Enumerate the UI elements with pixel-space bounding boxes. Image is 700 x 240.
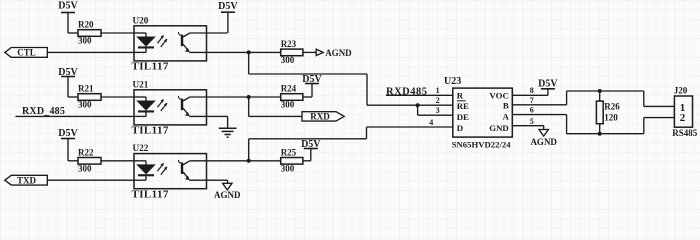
svg-text:R25: R25 xyxy=(281,147,297,157)
IC U23 SN65HVD22/24 body xyxy=(444,76,512,149)
svg-text:TIL117: TIL117 xyxy=(132,189,169,201)
svg-text:J20: J20 xyxy=(674,86,688,96)
svg-text:300: 300 xyxy=(78,36,92,46)
svg-text:2: 2 xyxy=(436,96,440,105)
svg-text:B: B xyxy=(503,100,509,110)
resistor R24 300 xyxy=(281,84,303,110)
phototransistor of U20 xyxy=(179,32,207,52)
svg-text:TIL117: TIL117 xyxy=(132,61,169,73)
power D5V for R21 xyxy=(58,67,78,97)
LED of U20 xyxy=(134,33,154,52)
wire TXD to U22 xyxy=(47,179,134,181)
svg-text:3: 3 xyxy=(436,106,440,115)
U23 pin numbers left xyxy=(429,86,439,127)
svg-text:300: 300 xyxy=(78,164,92,174)
svg-text:300: 300 xyxy=(281,100,295,110)
svg-text:AGND: AGND xyxy=(325,48,352,58)
U23 right pin names xyxy=(489,91,509,134)
svg-text:RXD_485: RXD_485 xyxy=(22,106,65,117)
svg-text:U23: U23 xyxy=(444,76,461,87)
power D5V for R22 xyxy=(58,128,78,161)
svg-text:R26: R26 xyxy=(604,102,620,112)
wire U20 collector to D5V xyxy=(207,32,228,34)
junction node U22 collector xyxy=(247,159,251,163)
junction node U20 emitter xyxy=(247,50,251,54)
svg-text:R20: R20 xyxy=(78,20,94,30)
phototransistor of U21 xyxy=(179,96,207,116)
wire U23 A pin6 to bus bottom rail xyxy=(512,115,674,134)
svg-text:TXD: TXD xyxy=(17,175,37,185)
svg-text:VOC: VOC xyxy=(489,91,508,101)
svg-text:DE: DE xyxy=(457,112,469,122)
svg-text:CTL: CTL xyxy=(17,48,36,58)
wire node to RXD flag xyxy=(249,97,302,116)
LED of U21 xyxy=(134,97,154,116)
U23 left pin names xyxy=(457,91,469,134)
svg-text:D5V: D5V xyxy=(538,79,558,90)
svg-text:SN65HVD22/24: SN65HVD22/24 xyxy=(452,140,512,150)
svg-text:120: 120 xyxy=(604,112,618,122)
resistor R22 300 xyxy=(78,147,101,173)
wire R22 to U22 xyxy=(101,160,134,162)
resistor R25 300 xyxy=(281,147,303,173)
port CTL xyxy=(5,48,48,58)
wire U20 emitter to node xyxy=(207,51,281,53)
wire U22 emitter to AGND xyxy=(207,180,228,183)
svg-text:R22: R22 xyxy=(78,147,94,157)
resistor R26 120 (termination) xyxy=(596,91,620,134)
optocoupler U21 TIL117 body xyxy=(132,79,207,136)
svg-text:1: 1 xyxy=(436,86,440,95)
svg-text:D5V: D5V xyxy=(58,128,78,139)
svg-text:GND: GND xyxy=(489,123,509,133)
svg-text:300: 300 xyxy=(281,55,295,65)
svg-text:7: 7 xyxy=(530,96,534,105)
svg-text:AGND: AGND xyxy=(530,137,557,147)
optocoupler U20 TIL117 body xyxy=(132,15,207,72)
power D5V at U23 VCC xyxy=(538,79,558,96)
wire junction to DE pin 3 xyxy=(418,105,453,115)
phototransistor of U22 xyxy=(179,160,207,180)
net label RXD485 with pin1 wire xyxy=(386,87,453,98)
power D5V above R25 xyxy=(301,139,321,161)
power port AGND at U23 GND xyxy=(530,130,557,147)
wire RXD_485 to U21 xyxy=(15,115,134,117)
svg-text:R: R xyxy=(457,91,464,101)
power D5V for R20 xyxy=(58,1,78,33)
wire R21 to U21 xyxy=(101,96,134,98)
port TXD xyxy=(5,175,48,185)
wire U23 VCC pin8 to D5V xyxy=(512,94,548,96)
wire U23 GND pin5 to AGND xyxy=(512,126,543,130)
wire U20 emitter to U23 RE/DE pins xyxy=(249,52,453,105)
svg-text:AGND: AGND xyxy=(214,190,241,200)
optocoupler U22 TIL117 body xyxy=(132,143,207,200)
junction node R26 top xyxy=(598,89,602,93)
svg-text:300: 300 xyxy=(78,100,92,110)
light arrows of U21 xyxy=(157,99,167,111)
wire U22 collector to R25 xyxy=(207,160,281,162)
wire U23 B pin7 to bus top rail xyxy=(512,91,674,106)
junction node RE/DE tie xyxy=(416,103,420,107)
junction node R26 bottom xyxy=(598,132,602,136)
wire R23 to AGND port xyxy=(303,51,316,53)
svg-text:R21: R21 xyxy=(78,84,94,94)
port RXD xyxy=(302,112,344,122)
svg-text:6: 6 xyxy=(530,106,534,115)
svg-text:D5V: D5V xyxy=(218,1,238,12)
wire R20 to U20 xyxy=(101,32,134,34)
wire CTL to U20 xyxy=(47,51,134,53)
power port AGND (R23) xyxy=(316,48,352,58)
power port AGND below U22 xyxy=(214,183,241,200)
light arrows of U22 xyxy=(157,163,167,175)
svg-text:RE: RE xyxy=(457,101,469,111)
power D5V above U20 collector xyxy=(218,1,238,33)
svg-text:8: 8 xyxy=(530,86,534,95)
svg-text:RXD: RXD xyxy=(310,112,330,122)
svg-text:D5V: D5V xyxy=(58,1,78,12)
svg-text:R23: R23 xyxy=(281,39,297,49)
U23 pin numbers right xyxy=(530,86,534,126)
power D5V above R24 xyxy=(302,74,322,97)
svg-text:4: 4 xyxy=(429,118,433,127)
svg-text:U22: U22 xyxy=(133,143,149,153)
svg-text:300: 300 xyxy=(281,164,295,174)
svg-text:A: A xyxy=(502,112,509,122)
light arrows of U20 xyxy=(157,35,167,47)
resistor R23 300 xyxy=(281,39,303,65)
svg-text:2: 2 xyxy=(680,112,686,124)
LED of U22 xyxy=(134,161,154,180)
wire U21 collector to R24 xyxy=(207,96,281,98)
earth ground at U21 emitter xyxy=(219,128,237,137)
svg-text:U21: U21 xyxy=(133,79,149,89)
svg-text:5: 5 xyxy=(530,117,534,126)
wire R25 to D5V xyxy=(303,160,311,162)
wire U21 emitter to ground xyxy=(207,116,228,128)
resistor R20 300 xyxy=(78,20,101,46)
svg-text:TIL117: TIL117 xyxy=(132,125,169,137)
connector J20 RS485 xyxy=(672,86,698,138)
resistor R21 300 xyxy=(78,84,101,110)
junction node U21 collector xyxy=(247,95,251,99)
svg-text:R24: R24 xyxy=(281,84,297,94)
svg-text:U20: U20 xyxy=(133,15,149,25)
wire U22 collector node to U23 D pin xyxy=(249,127,453,161)
wire R24 to D5V xyxy=(303,96,312,98)
svg-text:RS485: RS485 xyxy=(672,128,698,138)
svg-text:D: D xyxy=(457,123,463,133)
